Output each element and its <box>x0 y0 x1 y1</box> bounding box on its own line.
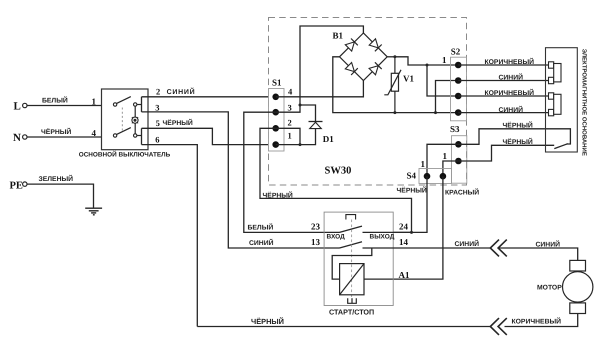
svg-text:КРАСНЫЙ: КРАСНЫЙ <box>445 187 479 196</box>
svg-text:L: L <box>14 101 21 113</box>
wire L white <box>27 105 102 107</box>
svg-text:PE: PE <box>10 180 23 191</box>
svg-text:23: 23 <box>311 222 321 232</box>
main switch box <box>102 89 149 150</box>
bottom black return wire <box>197 326 490 328</box>
B1 diode bottom-left <box>345 63 358 76</box>
node C junction <box>393 55 396 58</box>
switch pole 2 contacts <box>113 134 136 137</box>
rail junction at S2.2 drop <box>434 111 437 114</box>
svg-text:24: 24 <box>399 222 409 232</box>
svg-text:V1: V1 <box>403 74 414 84</box>
white wire S1.3 to contact 23 <box>244 112 340 232</box>
wire S2.3 brown to coil2 top <box>458 95 549 97</box>
svg-text:ЧЁРНЫЙ: ЧЁРНЫЙ <box>397 185 427 194</box>
relay coil A1 <box>340 264 364 295</box>
svg-text:ОСНОВНОЙ ВЫКЛЮЧАТЕЛЬ: ОСНОВНОЙ ВЫКЛЮЧАТЕЛЬ <box>79 151 171 159</box>
svg-text:1: 1 <box>443 151 448 161</box>
wire S2.2 to rail <box>436 81 459 113</box>
wire S1.1 node B to D1 anode <box>276 129 316 145</box>
S1 pin1 dot <box>272 141 279 148</box>
wire bridge DC+ to V1 node <box>387 56 395 58</box>
node A junction <box>299 104 302 107</box>
start/stop box <box>324 212 393 305</box>
svg-text:14: 14 <box>399 237 409 247</box>
svg-text:ЗЕЛЕНЫЙ: ЗЕЛЕНЫЙ <box>39 174 74 183</box>
wire bridge DC- to rail <box>333 57 458 113</box>
terminal PE <box>23 182 27 186</box>
switch pole 1 contacts <box>113 103 136 106</box>
svg-text:N: N <box>13 132 21 144</box>
svg-text:СИНИЙ: СИНИЙ <box>249 238 274 247</box>
svg-text:D1: D1 <box>323 134 334 144</box>
contact 14 wire blue <box>363 247 491 249</box>
svg-text:СИНИЙ: СИНИЙ <box>499 73 524 82</box>
svg-text:2: 2 <box>288 118 292 128</box>
wire node D to S2.3 <box>427 65 458 96</box>
lamp link vertical <box>134 106 136 133</box>
switch pole 1 blade <box>117 97 131 104</box>
svg-text:S4: S4 <box>407 171 417 181</box>
V1 rail junction <box>393 111 396 114</box>
svg-text:КОРИЧНЕВЫЙ: КОРИЧНЕВЫЙ <box>485 57 535 66</box>
wire node A to bridge AC top <box>300 26 363 105</box>
switch pole 2 blade <box>117 128 131 135</box>
svg-text:СИНИЙ: СИНИЙ <box>455 239 480 248</box>
svg-text:S3: S3 <box>450 124 460 134</box>
svg-text:1: 1 <box>92 97 97 107</box>
black wire S1.2 to node 24 <box>260 128 412 232</box>
wire S4 left black down to contact 24 <box>393 176 427 232</box>
terminal N <box>23 135 27 139</box>
connector chevrons blue <box>490 240 507 257</box>
wire S2.4 blue to coil2 bottom <box>458 112 549 114</box>
coil actuator symbol Ш <box>348 298 357 303</box>
pole2 output bracket <box>137 135 141 137</box>
S2 pin dots <box>455 62 462 69</box>
contact 24 wire <box>363 231 412 233</box>
mechanical link dashed <box>121 108 123 133</box>
svg-text:ВХОД: ВХОД <box>327 234 346 241</box>
svg-text:БЕЛЫЙ: БЕЛЫЙ <box>248 222 274 231</box>
stop contact blade 13-14 <box>340 242 363 248</box>
svg-text:МОТОР: МОТОР <box>537 285 562 292</box>
node B junction <box>299 143 302 146</box>
svg-text:СИНИЙ: СИНИЙ <box>536 240 561 249</box>
coil 2 <box>549 93 562 116</box>
connector S1 <box>269 89 285 152</box>
motor bottom wire <box>505 314 578 327</box>
svg-text:1: 1 <box>442 55 447 65</box>
svg-text:1: 1 <box>421 159 426 169</box>
wire S3.1 black upper to microswitch <box>458 129 570 145</box>
svg-text:ЧЁРНЫЙ: ЧЁРНЫЙ <box>503 137 533 146</box>
svg-text:ВЫХОД: ВЫХОД <box>370 234 395 241</box>
svg-text:4: 4 <box>92 128 97 138</box>
wire PE green <box>27 184 94 208</box>
svg-text:БЕЛЫЙ: БЕЛЫЙ <box>42 96 68 105</box>
svg-text:ЭЛЕКТРОМАГНИТНОЕ ОСНОВАНИЕ: ЭЛЕКТРОМАГНИТНОЕ ОСНОВАНИЕ <box>581 49 588 156</box>
svg-text:3: 3 <box>288 102 292 112</box>
svg-text:ЧЁРНЫЙ: ЧЁРНЫЙ <box>503 120 533 129</box>
svg-text:13: 13 <box>311 237 321 247</box>
start contact blade 23-24 <box>340 226 363 232</box>
svg-text:B1: B1 <box>333 31 344 41</box>
SW30 dashed enclosure <box>269 18 467 186</box>
wire 5 black: switch to S1 pin1 <box>142 128 276 144</box>
wire N black <box>27 136 102 138</box>
wire S2.2 blue to coil1 bottom <box>458 80 549 82</box>
mechanical link dashed <box>351 220 353 298</box>
wire S3.2 to S4 right pin <box>443 161 459 176</box>
wire node A to D1 cathode <box>300 105 316 122</box>
connector chevrons brown <box>490 318 507 335</box>
connector S2 <box>451 57 467 121</box>
wire 6: switch down to motor return <box>142 145 198 327</box>
B1 diamond <box>340 33 388 81</box>
svg-text:СТАРТ/СТОП: СТАРТ/СТОП <box>329 307 374 316</box>
S3 pin dots <box>455 141 462 148</box>
wire S2.1 brown to coil1 top <box>458 64 549 66</box>
svg-text:SW30: SW30 <box>325 166 352 177</box>
svg-text:ЧЁРНЫЙ: ЧЁРНЫЙ <box>163 118 193 127</box>
svg-text:ЧЁРНЫЙ: ЧЁРНЫЙ <box>251 317 284 326</box>
node 24 junction <box>410 231 413 234</box>
S1 pin2 dot <box>272 125 279 132</box>
svg-text:КОРИЧНЕВЫЙ: КОРИЧНЕВЫЙ <box>512 317 562 326</box>
node D junction on S2.1 wire <box>426 64 429 67</box>
lamp <box>132 117 138 123</box>
svg-text:S1: S1 <box>272 77 282 87</box>
svg-text:КОРИЧНЕВЫЙ: КОРИЧНЕВЫЙ <box>485 88 535 97</box>
svg-text:СИНИЙ: СИНИЙ <box>499 105 524 114</box>
svg-text:СИНИЙ: СИНИЙ <box>167 87 196 96</box>
svg-text:S2: S2 <box>451 47 461 57</box>
S1 pin3 dot <box>272 109 279 116</box>
ground <box>85 208 102 215</box>
coil 1 <box>549 62 562 84</box>
svg-text:А1: А1 <box>399 270 410 280</box>
connector S3 <box>452 136 467 184</box>
B1 diode bottom-right <box>369 62 382 75</box>
wire S3.2 black lower to microswitch <box>458 145 554 161</box>
svg-text:3: 3 <box>155 102 159 112</box>
wire S1.3 to node A <box>276 105 300 112</box>
S1 pin4 dot <box>272 94 279 101</box>
microswitch blade <box>554 144 568 149</box>
wire S4 right red down to A1 <box>364 176 443 279</box>
varistor V1 <box>384 57 401 113</box>
wire S3.1 to S4 left pin <box>427 144 458 176</box>
blue wire to motor <box>499 248 578 260</box>
svg-text:6: 6 <box>155 135 159 145</box>
wire S1.4 to bridge AC bottom <box>276 81 364 97</box>
B1 diode top-left <box>345 39 358 52</box>
motor M <box>563 260 593 313</box>
terminal L <box>23 103 27 107</box>
svg-text:1: 1 <box>288 130 292 140</box>
start button actuator symbol <box>346 215 356 220</box>
svg-text:2: 2 <box>156 87 160 97</box>
B1 diode top-right <box>369 39 382 52</box>
diode D1 <box>309 122 323 129</box>
connector S4 <box>419 169 452 184</box>
svg-text:ЧЁРНЫЙ: ЧЁРНЫЙ <box>41 127 71 136</box>
electromagnetic base box <box>546 48 578 152</box>
wire node C to S2.1 <box>395 57 458 65</box>
pole1 output bracket <box>137 104 141 106</box>
wire 2 blue: switch to S1 pin4 <box>142 96 276 98</box>
wire 3: switch down to blue wire contact 13 <box>142 112 340 248</box>
wire S1.2 to node B <box>276 128 300 144</box>
S4 pin dots <box>424 173 431 180</box>
svg-text:5: 5 <box>156 118 160 128</box>
wire 14 tap to coil <box>332 248 372 279</box>
